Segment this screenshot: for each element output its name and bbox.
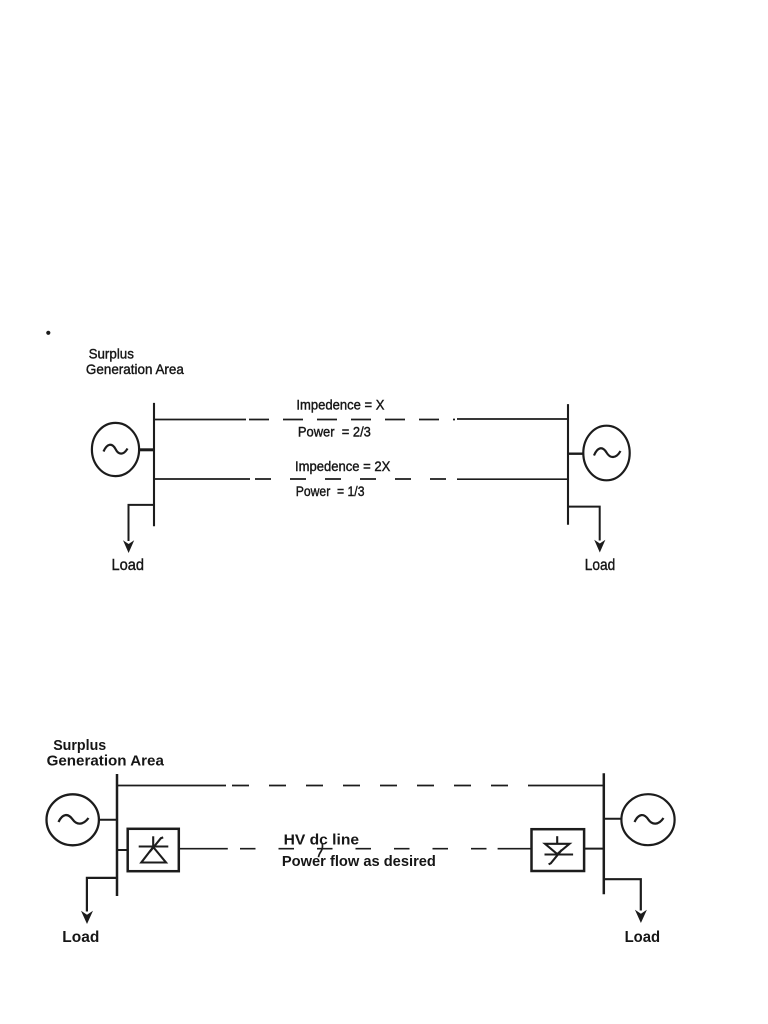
- wire: bottom-left load tap: [87, 878, 117, 912]
- wire: bottom-right load tap: [604, 879, 641, 910]
- wire: bottom AC line dashed middle: [232, 785, 545, 787]
- wire: bottom AC line solid right segment: [545, 785, 604, 787]
- wire: transmission line 1 solid right segment: [457, 418, 568, 420]
- bullet dot: [46, 331, 50, 335]
- wire: bus to G4: [604, 818, 622, 820]
- wire: G3 to bottom-left bus: [99, 819, 117, 821]
- svg-text:Power = 2/3: Power = 2/3: [298, 423, 371, 439]
- load arrow (top-left): [123, 540, 134, 553]
- wire: HV dc line dashed middle: [240, 848, 487, 850]
- load arrow (bottom-left): [81, 911, 93, 924]
- svg-text:Surplus: Surplus: [89, 345, 134, 361]
- wire: top-left load tap: [129, 505, 155, 541]
- svg-text:Load: Load: [625, 929, 661, 946]
- svg-text:Generation Area: Generation Area: [47, 752, 165, 769]
- svg-text:Generation Area: Generation Area: [86, 361, 184, 377]
- wire: transmission line 2 dashed middle: [255, 478, 452, 480]
- svg-text:Load: Load: [62, 929, 99, 946]
- leader hook under "dc": [319, 844, 323, 858]
- wire: U2 to bottom-right bus: [584, 848, 604, 850]
- converter U2 (inverter box, bottom-right): [532, 829, 585, 871]
- generator G1 (top-left AC source): [92, 423, 139, 476]
- generator G2 (top-right AC source): [583, 426, 629, 481]
- wire: bottom AC line solid left segment: [117, 785, 226, 787]
- generator G4 (bottom-right AC source): [621, 794, 674, 845]
- wire: transmission line 2 solid right segment: [457, 478, 568, 480]
- wire: right bus to G2: [568, 453, 584, 455]
- wire: bus to converter U1: [117, 849, 128, 851]
- generator G3 (bottom-left AC source): [46, 794, 98, 845]
- svg-text:Surplus: Surplus: [53, 737, 106, 754]
- wire: transmission line 1 dashed middle: [249, 419, 455, 421]
- svg-text:Impedence = X: Impedence = X: [296, 397, 385, 413]
- bus: bottom-right vertical busbar: [603, 773, 606, 894]
- load arrow (bottom-right): [635, 910, 647, 923]
- wire: HV dc line solid right segment: [498, 848, 532, 850]
- bus: top-left vertical busbar: [153, 403, 155, 526]
- bus: bottom-left vertical busbar: [116, 774, 119, 896]
- wire: HV dc line solid left segment: [179, 848, 228, 850]
- wire: transmission line 1 solid left segment: [154, 419, 246, 421]
- svg-text:Load: Load: [112, 557, 145, 574]
- load arrow (top-right): [594, 540, 605, 553]
- svg-text:Power = 1/3: Power = 1/3: [296, 483, 365, 499]
- bus: top-right vertical busbar: [567, 404, 569, 525]
- svg-text:Power flow as desired: Power flow as desired: [282, 853, 436, 870]
- wire: top-right load tap: [568, 507, 600, 541]
- thyristor symbol in U1: [139, 836, 169, 862]
- thyristor symbol in U2: [545, 836, 574, 864]
- wire: transmission line 2 solid left segment: [154, 478, 250, 480]
- svg-text:Load: Load: [585, 557, 616, 574]
- svg-text:HV dc line: HV dc line: [284, 832, 360, 849]
- converter U1 (rectifier box, bottom-left): [128, 829, 179, 871]
- svg-text:Impedence = 2X: Impedence = 2X: [295, 458, 391, 474]
- wire: G1 to left bus: [139, 448, 154, 451]
